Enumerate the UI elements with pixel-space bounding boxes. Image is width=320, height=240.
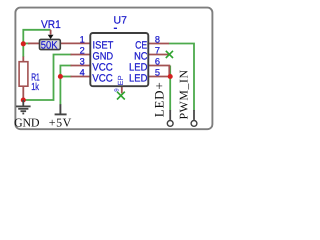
label VR1 [41, 19, 61, 31]
junction node VCC pins 3-4 [58, 74, 63, 79]
wire VCC net: pin 3 down to +5V [60, 66, 71, 105]
pin name VCC (pin 4) [92, 72, 113, 84]
pin VR1 right stub / U7 pin 1 [60, 42, 91, 44]
pin U7 pin 3 stub [71, 65, 91, 67]
wire VCC net: pin 4 stub to riser [60, 76, 71, 78]
pin U7 pin 6 stub [148, 66, 169, 77]
wire LED net: pins 6/5 down to LED+ terminal [169, 66, 171, 111]
ground symbol [16, 100, 31, 114]
pin number 6 [155, 57, 160, 67]
pin number 4 [80, 68, 85, 78]
terminal LED+ (open circle) [167, 110, 173, 126]
svg-text:1: 1 [80, 35, 85, 45]
pin name ISET [93, 39, 114, 51]
pin U7 pin 9 EP stub [121, 86, 123, 93]
label 1k [31, 82, 39, 93]
junction node LED pins 5-6 [168, 74, 173, 79]
pin number 9 (EP, rotated) [113, 88, 120, 92]
op-amp U7 body (LED driver IC) [90, 33, 148, 86]
svg-text:LED+: LED+ [151, 81, 166, 117]
wire CE net: pin 8 to PWM_IN terminal [169, 44, 194, 111]
svg-text:VR1: VR1 [41, 19, 61, 31]
pin U7 pin 8 stub [148, 43, 169, 45]
pin number 2 [80, 46, 85, 56]
label R1 [31, 73, 40, 84]
svg-text:U7: U7 [114, 14, 128, 26]
svg-text:2: 2 [80, 46, 85, 56]
pin name CE [135, 39, 147, 51]
svg-text:7: 7 [155, 46, 160, 56]
power +5V symbol [55, 104, 67, 114]
pin R1 bottom stub [22, 86, 24, 98]
label +5V [49, 115, 72, 129]
svg-text:EP: EP [116, 75, 125, 85]
label PWM_IN (rotated) [177, 69, 191, 119]
svg-text:VCC: VCC [92, 72, 113, 84]
svg-text:3: 3 [80, 57, 85, 67]
pin name NC [134, 50, 148, 62]
svg-text:6: 6 [155, 57, 160, 67]
terminal PWM_IN (open circle) [191, 110, 197, 126]
svg-text:PWM_IN: PWM_IN [177, 69, 191, 119]
svg-text:GND: GND [14, 115, 40, 129]
svg-text:1k: 1k [31, 82, 39, 93]
pin number 5 [155, 68, 160, 78]
resistor R1 body [19, 62, 28, 86]
pin number 7 [155, 46, 160, 56]
pin name GND [93, 50, 114, 62]
pin number 8 [155, 35, 160, 45]
svg-text:+5V: +5V [49, 115, 72, 129]
pin VR1 left stub [28, 42, 40, 44]
pin name LED (pin 6) [129, 61, 148, 73]
label U7 [114, 14, 128, 29]
pin U7 pin 4 stub [71, 76, 91, 78]
no-connect X on pin 7 [166, 51, 173, 58]
label GND [14, 115, 40, 129]
junction node ISET/VR1/R1 [21, 41, 26, 46]
label LED+ (rotated) [151, 81, 166, 117]
no-connect X on pin 9 EP [117, 92, 125, 100]
pin U7 pin 2 stub [71, 54, 91, 56]
wire GND net: pin 2 to ground junction [23, 55, 71, 101]
pin name VCC (pin 3) [92, 61, 113, 73]
svg-text:LED: LED [129, 72, 148, 84]
svg-text:50K: 50K [41, 39, 58, 51]
wire ISET net: junction to VR1 left pin [23, 42, 29, 44]
wire R1 top to ISET junction [22, 43, 24, 57]
svg-text:5: 5 [155, 68, 160, 78]
svg-text:9: 9 [113, 88, 120, 92]
pin name EP (rotated) [116, 75, 125, 85]
pin U7 pin 7 stub [148, 54, 169, 56]
pin number 1 [80, 35, 85, 45]
pin U7 pin 5 stub [148, 76, 169, 78]
junction node R1 bottom / ground [21, 97, 26, 102]
pin VR1 wiper stub [50, 30, 52, 35]
pin name LED (pin 5) [129, 72, 148, 84]
svg-text:8: 8 [155, 35, 160, 45]
pin R1 top stub [22, 57, 24, 63]
potentiometer VR1 body 50K [40, 35, 61, 52]
pin number 3 [80, 57, 85, 67]
svg-text:4: 4 [80, 68, 85, 78]
wire VR1 wiper loop [23, 30, 50, 44]
